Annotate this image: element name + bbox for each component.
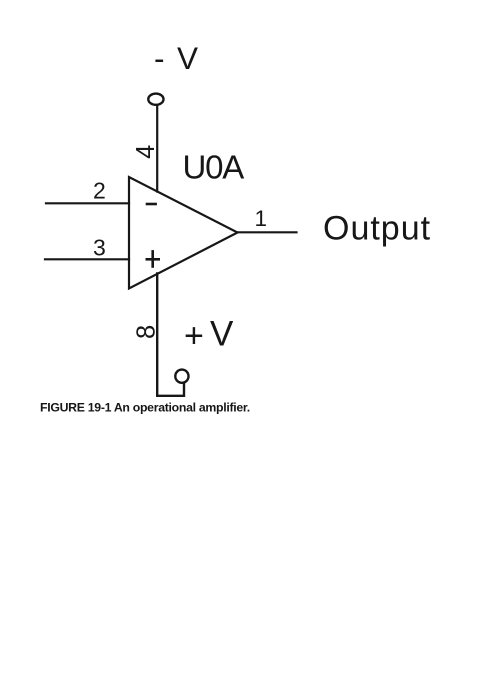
svg-text:4: 4 (132, 145, 160, 159)
svg-text:8: 8 (132, 325, 160, 339)
wire inverting input (46, 202, 129, 204)
svg-text:V: V (210, 315, 234, 354)
svg-text:V: V (177, 40, 198, 76)
label Output (323, 210, 431, 248)
wire pin4 to -V terminal (156, 106, 158, 192)
pin 2 (93, 178, 106, 204)
terminal circle +V (175, 370, 188, 383)
plus input marker (147, 251, 159, 266)
wire output (238, 231, 297, 233)
pin 3 (93, 235, 106, 261)
svg-text:3: 3 (93, 235, 106, 261)
pin 1 (255, 206, 268, 231)
terminal circle -V (148, 94, 163, 105)
label U0A (183, 149, 245, 186)
svg-text:U0A: U0A (183, 149, 245, 186)
caption (40, 400, 250, 414)
svg-text:2: 2 (93, 178, 106, 204)
pin 8 (132, 325, 160, 339)
label +V supply (184, 315, 234, 356)
svg-text:Output: Output (323, 210, 431, 248)
svg-text:FIGURE 19-1 An operational amp: FIGURE 19-1 An operational amplifier. (40, 400, 250, 414)
op-amp U0A triangle (129, 177, 238, 289)
svg-text:-: - (154, 40, 165, 76)
wire pin8 to +V terminal (157, 274, 184, 396)
svg-text:1: 1 (255, 206, 268, 231)
label -V supply (154, 40, 198, 76)
pin 4 (132, 145, 160, 159)
minus input marker (147, 203, 156, 206)
wire non-inverting input (45, 258, 129, 260)
svg-text:+: + (184, 317, 204, 355)
